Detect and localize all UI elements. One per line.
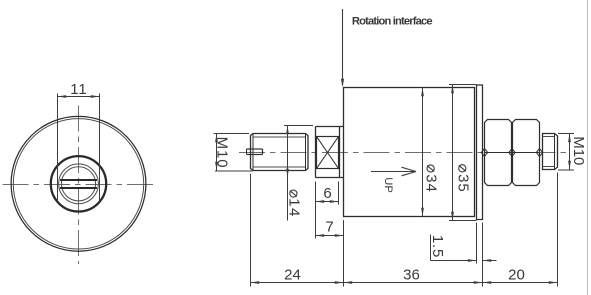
UP arrow barb upper	[402, 167, 417, 171]
chain dimension line	[251, 282, 558, 284]
dimension 11 right arrow	[91, 95, 100, 98]
bearing boss right edge	[339, 127, 341, 178]
dimension diam35 line	[452, 85, 454, 221]
left stud left chamfer line	[252, 134, 254, 171]
nut 2 octagon	[513, 120, 540, 186]
svg-text:M10: M10	[570, 136, 587, 165]
dimension 1.5 stub	[430, 235, 432, 261]
dimension diam35 bottom extension	[449, 220, 477, 222]
dimension diam34 top arrow	[421, 88, 424, 97]
svg-text:35: 35	[454, 174, 471, 193]
body rectangle	[344, 88, 475, 217]
left stud slot end line	[262, 149, 264, 155]
dimension diam14 text	[285, 190, 302, 218]
dimension diam14 top extension	[284, 125, 313, 127]
dimension 1.5 right arrow	[483, 259, 492, 262]
dimension 1.5 left arrow	[468, 259, 477, 262]
svg-text:14: 14	[285, 198, 302, 218]
chain extension flange	[482, 223, 484, 287]
dimension 1.5 line right part	[483, 260, 497, 262]
chain arrow at left end	[251, 281, 260, 284]
chain arrow at right end	[549, 281, 558, 284]
nut chamfer diamond middle	[509, 149, 515, 157]
hub thread circle inner	[61, 167, 95, 201]
UP arrow shaft	[371, 171, 416, 173]
dimension 1.5 left extension	[476, 223, 478, 264]
svg-text:UP: UP	[382, 177, 394, 193]
left stud slot bottom line	[247, 154, 263, 156]
svg-text:34: 34	[423, 174, 440, 193]
chain extension right	[557, 173, 559, 287]
dimension 11 line	[58, 96, 100, 98]
rotation interface leader arrow	[341, 79, 344, 87]
nut chamfer diamond right	[536, 149, 542, 157]
dimension 6 right extension	[338, 182, 340, 205]
bearing box	[317, 137, 339, 169]
bearing box diagonal 1	[317, 137, 339, 169]
dimension 6 line	[316, 201, 339, 203]
page edge line	[587, 0, 589, 295]
dimension diam34 bottom arrow	[421, 208, 424, 217]
dimension M10 right line	[569, 134, 571, 170]
svg-text:1.5: 1.5	[429, 235, 446, 258]
dimension M10 left line	[216, 134, 218, 171]
hub right flat / extension line	[99, 94, 101, 202]
svg-text:20: 20	[508, 267, 525, 284]
dimension M10 right top arrow	[568, 134, 571, 143]
svg-text:M10: M10	[214, 137, 231, 169]
right stud thread line bottom	[543, 166, 555, 168]
dimension diam35 text	[454, 165, 471, 193]
dimension 6 left extension	[315, 182, 317, 239]
dimension 7 right arrow	[335, 234, 344, 237]
dimension diam35 top extension	[449, 84, 477, 86]
dimension 6 right arrow	[330, 200, 339, 203]
dimension diam34 text	[423, 165, 440, 193]
dimension M10 left bottom extension	[215, 170, 253, 172]
chain extension left	[250, 174, 252, 287]
dimension 6 left arrow	[316, 200, 325, 203]
hub bold circle	[51, 156, 106, 211]
dimension 7 line	[316, 235, 344, 237]
dimension diam14 bottom arrow	[286, 169, 289, 178]
left stud thread line top	[253, 136, 306, 138]
hub thread circle outer	[59, 164, 99, 204]
nut 1 octagon	[485, 120, 512, 186]
screw slot lower line	[60, 187, 97, 189]
dimension diam35 top arrow	[451, 85, 454, 94]
dimension 11 left arrow	[58, 95, 67, 98]
side view centerline	[239, 152, 569, 154]
UP arrow barb lower	[402, 172, 417, 176]
dimension 1.5 line left part	[431, 260, 477, 262]
chain extension body left	[343, 220, 345, 287]
left stud outline	[251, 134, 309, 171]
front view outer circle	[11, 116, 146, 251]
dimension M10 right top extension	[558, 133, 574, 135]
svg-text:7: 7	[325, 219, 333, 236]
svg-text:24: 24	[284, 266, 301, 283]
svg-text:11: 11	[70, 81, 88, 98]
right stud outline	[543, 134, 558, 170]
dimension diam35 bottom arrow	[451, 212, 454, 221]
right stud chamfer line	[554, 134, 556, 170]
left stud right chamfer line	[305, 134, 307, 171]
rotation interface leader line	[342, 9, 344, 85]
nut 1 mid line	[485, 152, 512, 154]
svg-text:6: 6	[323, 185, 331, 202]
bearing boss left edge	[315, 127, 317, 178]
chain arrows at flange	[474, 281, 483, 284]
screw slot upper line	[60, 179, 97, 181]
left stud slot left end line	[246, 149, 248, 155]
dimension M10 left top extension	[214, 133, 250, 135]
dimension 7 left arrow	[316, 234, 325, 237]
left stud slot top line	[247, 148, 263, 150]
svg-text:36: 36	[403, 267, 420, 284]
dimension diam34 line	[422, 88, 424, 217]
dimension M10 right bottom extension	[558, 169, 574, 171]
nut chamfer diamond left	[481, 149, 487, 157]
dimension M10 right bottom arrow	[568, 161, 571, 170]
dimension diam14 line	[287, 126, 289, 221]
front view vertical centerline	[78, 106, 80, 265]
dimension diam14 top arrow	[286, 126, 289, 135]
left stud thread line bottom	[253, 166, 306, 168]
dimension M10 left bottom arrow	[215, 162, 218, 171]
right stud thread line top	[543, 136, 555, 138]
dimension M10 left top arrow	[215, 134, 218, 143]
hub left flat / extension line	[57, 94, 59, 202]
flange rectangle	[477, 85, 483, 220]
front view inner rim circle	[13, 119, 143, 249]
bearing box diagonal 2	[317, 137, 339, 169]
svg-text:Rotation interface: Rotation interface	[352, 16, 432, 28]
bearing boss bottom line	[316, 177, 344, 179]
front view horizontal centerline	[3, 184, 156, 186]
bearing boss top line	[316, 126, 344, 128]
nut 2 mid line	[513, 152, 540, 154]
chain arrows at body left	[335, 281, 344, 284]
